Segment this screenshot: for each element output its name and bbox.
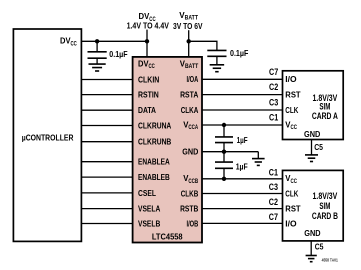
ground below SIM card B [306,255,317,257]
wire CLKRUNA from microcontroller to IC [81,125,132,127]
svg-text:C7: C7 [269,212,278,222]
wire GND drop to ground [257,152,259,159]
wire GND of SIM card B to ground [310,241,312,256]
svg-text:CLKA: CLKA [181,106,199,115]
capacitor 1uF VCCB [223,152,225,162]
svg-text:VSELB: VSELB [138,219,160,228]
wire DVCC from microcontroller to supply [81,40,147,42]
wire CSEL from microcontroller to IC [81,192,132,194]
svg-text:RSTB: RSTB [180,205,198,214]
svg-text:CLKB: CLKB [181,189,199,198]
svg-text:C2: C2 [269,82,278,92]
svg-text:0.1µF: 0.1µF [230,49,248,58]
svg-text:GND: GND [304,129,320,139]
wire ENABLEB from microcontroller to IC [81,176,132,178]
wire VBATT to bypass cap [189,41,217,50]
svg-text:CARD A: CARD A [312,111,339,121]
wire VCCA from IC to SIM card A [202,124,283,126]
svg-text:C5: C5 [314,143,323,152]
svg-text:C3: C3 [269,98,278,108]
svg-text:ENABLEA: ENABLEA [138,158,170,167]
svg-text:C1: C1 [269,167,278,177]
svg-text:RST: RST [285,205,300,214]
SIM card A title [312,93,339,121]
svg-text:µCONTROLLER: µCONTROLLER [22,132,74,142]
svg-text:CARD B: CARD B [312,211,338,221]
svg-text:VSELA: VSELA [138,205,160,214]
node DVCC junction at supply entry [145,39,149,43]
wire GND of SIM card A to ground [311,140,313,155]
wire ENABLEA from microcontroller to IC [81,161,132,163]
svg-text:C7: C7 [269,67,278,77]
capacitor 1uF VCCA [223,125,225,137]
wire VBATT supply drop into IC [188,30,190,57]
node VCCB junction [222,177,226,181]
svg-text:I/O: I/O [285,219,297,228]
ground below VBATT bypass cap [210,64,225,66]
node DVCC junction at bypass cap [95,39,99,43]
wire VCCB from IC to SIM card B [202,178,283,180]
svg-text:0.1µF: 0.1µF [109,50,127,59]
svg-text:1.8V/3V: 1.8V/3V [313,191,338,201]
wire RSTA from IC to SIM card A [202,94,283,96]
svg-text:CLK: CLK [285,189,298,198]
wire CLKB from IC to SIM card B [202,193,283,195]
svg-text:C2: C2 [269,197,278,207]
svg-text:LTC4558: LTC4558 [152,231,183,241]
ground below SIM card A [305,154,318,156]
wire CLKRUNB from microcontroller to IC [81,141,132,143]
wire CLKA from IC to SIM card A [202,109,283,111]
wire I/OB from IC to SIM card B [202,222,283,224]
wire RSTB from IC to SIM card B [202,208,283,210]
node VBATT junction [187,39,191,43]
SIM card B box [283,170,344,241]
svg-text:DATA: DATA [138,106,156,115]
svg-text:CLKIN: CLKIN [138,75,159,84]
wire VSELA from microcontroller to IC [81,208,132,210]
wire CLKIN from microcontroller to IC [81,79,132,81]
svg-text:4558 TA01: 4558 TA01 [322,257,339,262]
wire RSTIN from microcontroller to IC [81,94,132,96]
svg-text:3V TO 6V: 3V TO 6V [173,21,203,31]
wire DATA from microcontroller to IC [81,109,132,111]
svg-text:CLKRUNA: CLKRUNA [138,121,171,130]
wire DVCC supply drop into IC [146,30,148,58]
svg-text:1µF: 1µF [237,136,248,145]
op IC U1 LTC4558 body [133,57,202,243]
svg-text:CLK: CLK [285,106,298,115]
svg-text:CLKRUNB: CLKRUNB [138,138,171,147]
svg-text:GND: GND [304,228,320,238]
svg-text:C3: C3 [269,182,278,192]
svg-text:I/OA: I/OA [187,75,199,84]
microcontroller box [13,29,81,241]
SIM card B title [312,191,338,221]
svg-text:1µF: 1µF [236,163,248,172]
svg-text:I/O: I/O [285,75,297,84]
SIM card A box [283,71,344,140]
svg-text:RST: RST [285,91,300,100]
svg-text:C1: C1 [269,113,278,123]
supply label DVCC 1.4V TO 4.4V [127,11,170,31]
svg-text:RSTIN: RSTIN [138,91,159,100]
capacitor 0.1uF VBATT bypass [216,49,218,51]
ground GND net [252,158,265,160]
svg-text:GND: GND [182,148,198,157]
svg-text:ENABLEB: ENABLEB [138,173,170,182]
ground below DVCC bypass cap [89,63,106,65]
node VCCA junction [222,123,226,127]
capacitor 0.1uF DVCC bypass [96,41,98,52]
svg-text:CSEL: CSEL [138,189,156,198]
wire GND from IC [202,151,258,153]
supply label VBATT 3V TO 6V [173,10,203,31]
svg-text:C5: C5 [315,242,324,251]
wire I/OA from IC to SIM card A [202,78,283,80]
svg-text:RSTA: RSTA [180,91,198,100]
svg-text:SIM: SIM [319,201,330,211]
svg-text:1.4V TO 4.4V: 1.4V TO 4.4V [127,21,170,31]
svg-text:I/OB: I/OB [187,219,199,228]
node GND junction [222,150,226,154]
wire VSELB from microcontroller to IC [81,223,132,225]
